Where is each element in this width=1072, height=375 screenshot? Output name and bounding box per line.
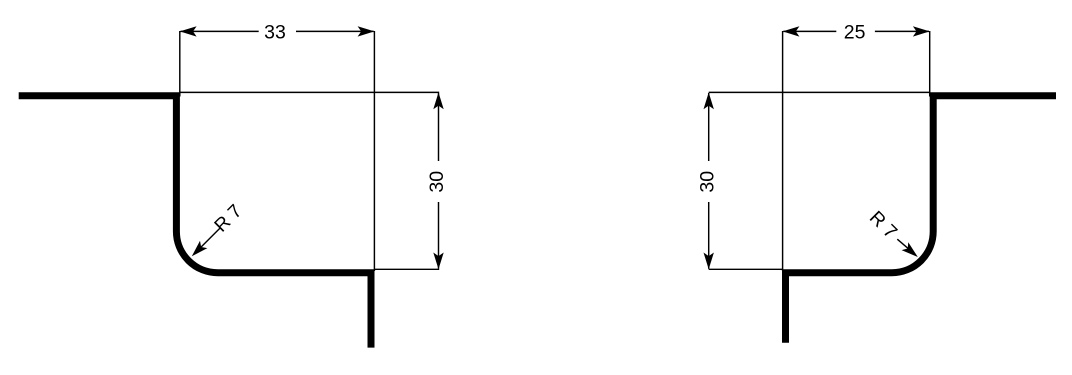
profile outline right part xyxy=(786,96,1057,343)
svg-text:30: 30 xyxy=(426,171,448,193)
dimension text 30 left figure xyxy=(426,171,448,193)
svg-text:30: 30 xyxy=(697,171,719,193)
dimension text 25 xyxy=(844,22,866,44)
arrowhead 30 left-fig bottom xyxy=(433,252,443,269)
extension line left-30-bottom xyxy=(374,268,439,270)
extension line left-33-left xyxy=(179,31,181,97)
arrowhead 33 right xyxy=(358,26,375,36)
leader line R7 right xyxy=(897,239,914,253)
arrowhead 25 left xyxy=(783,26,800,36)
radius text R7 right xyxy=(865,207,901,243)
extension line left-33-right xyxy=(373,31,375,271)
radius text R7 left xyxy=(211,201,247,237)
arrowhead R7 right xyxy=(902,242,922,261)
dimension line 30 right figure xyxy=(708,93,710,269)
svg-text:25: 25 xyxy=(844,22,866,44)
dimension line 25 xyxy=(783,30,929,32)
dimension text 30 right figure xyxy=(697,171,719,193)
svg-text:R 7: R 7 xyxy=(865,207,901,243)
dimension line 33 xyxy=(181,30,374,32)
arrowhead R7 left xyxy=(188,241,207,260)
dimension line 30 left figure xyxy=(438,93,440,269)
arrowhead 30 left-fig top xyxy=(433,92,443,109)
arrowhead 33 left xyxy=(180,26,197,36)
dimension text 33 xyxy=(264,22,286,44)
leader line R7 left xyxy=(196,228,221,253)
extension line right-30-bottom xyxy=(709,268,783,270)
arrowhead 30 right-fig bottom xyxy=(704,252,714,269)
profile outline left part xyxy=(19,96,371,348)
extension line left-30-top xyxy=(180,91,439,93)
arrowhead 30 right-fig top xyxy=(704,92,714,109)
arrowhead 25 right xyxy=(913,26,930,36)
extension line right-25-right xyxy=(929,31,931,97)
svg-text:33: 33 xyxy=(264,22,286,44)
extension line right-25-left xyxy=(782,31,784,271)
extension line right-30-top xyxy=(709,91,930,93)
